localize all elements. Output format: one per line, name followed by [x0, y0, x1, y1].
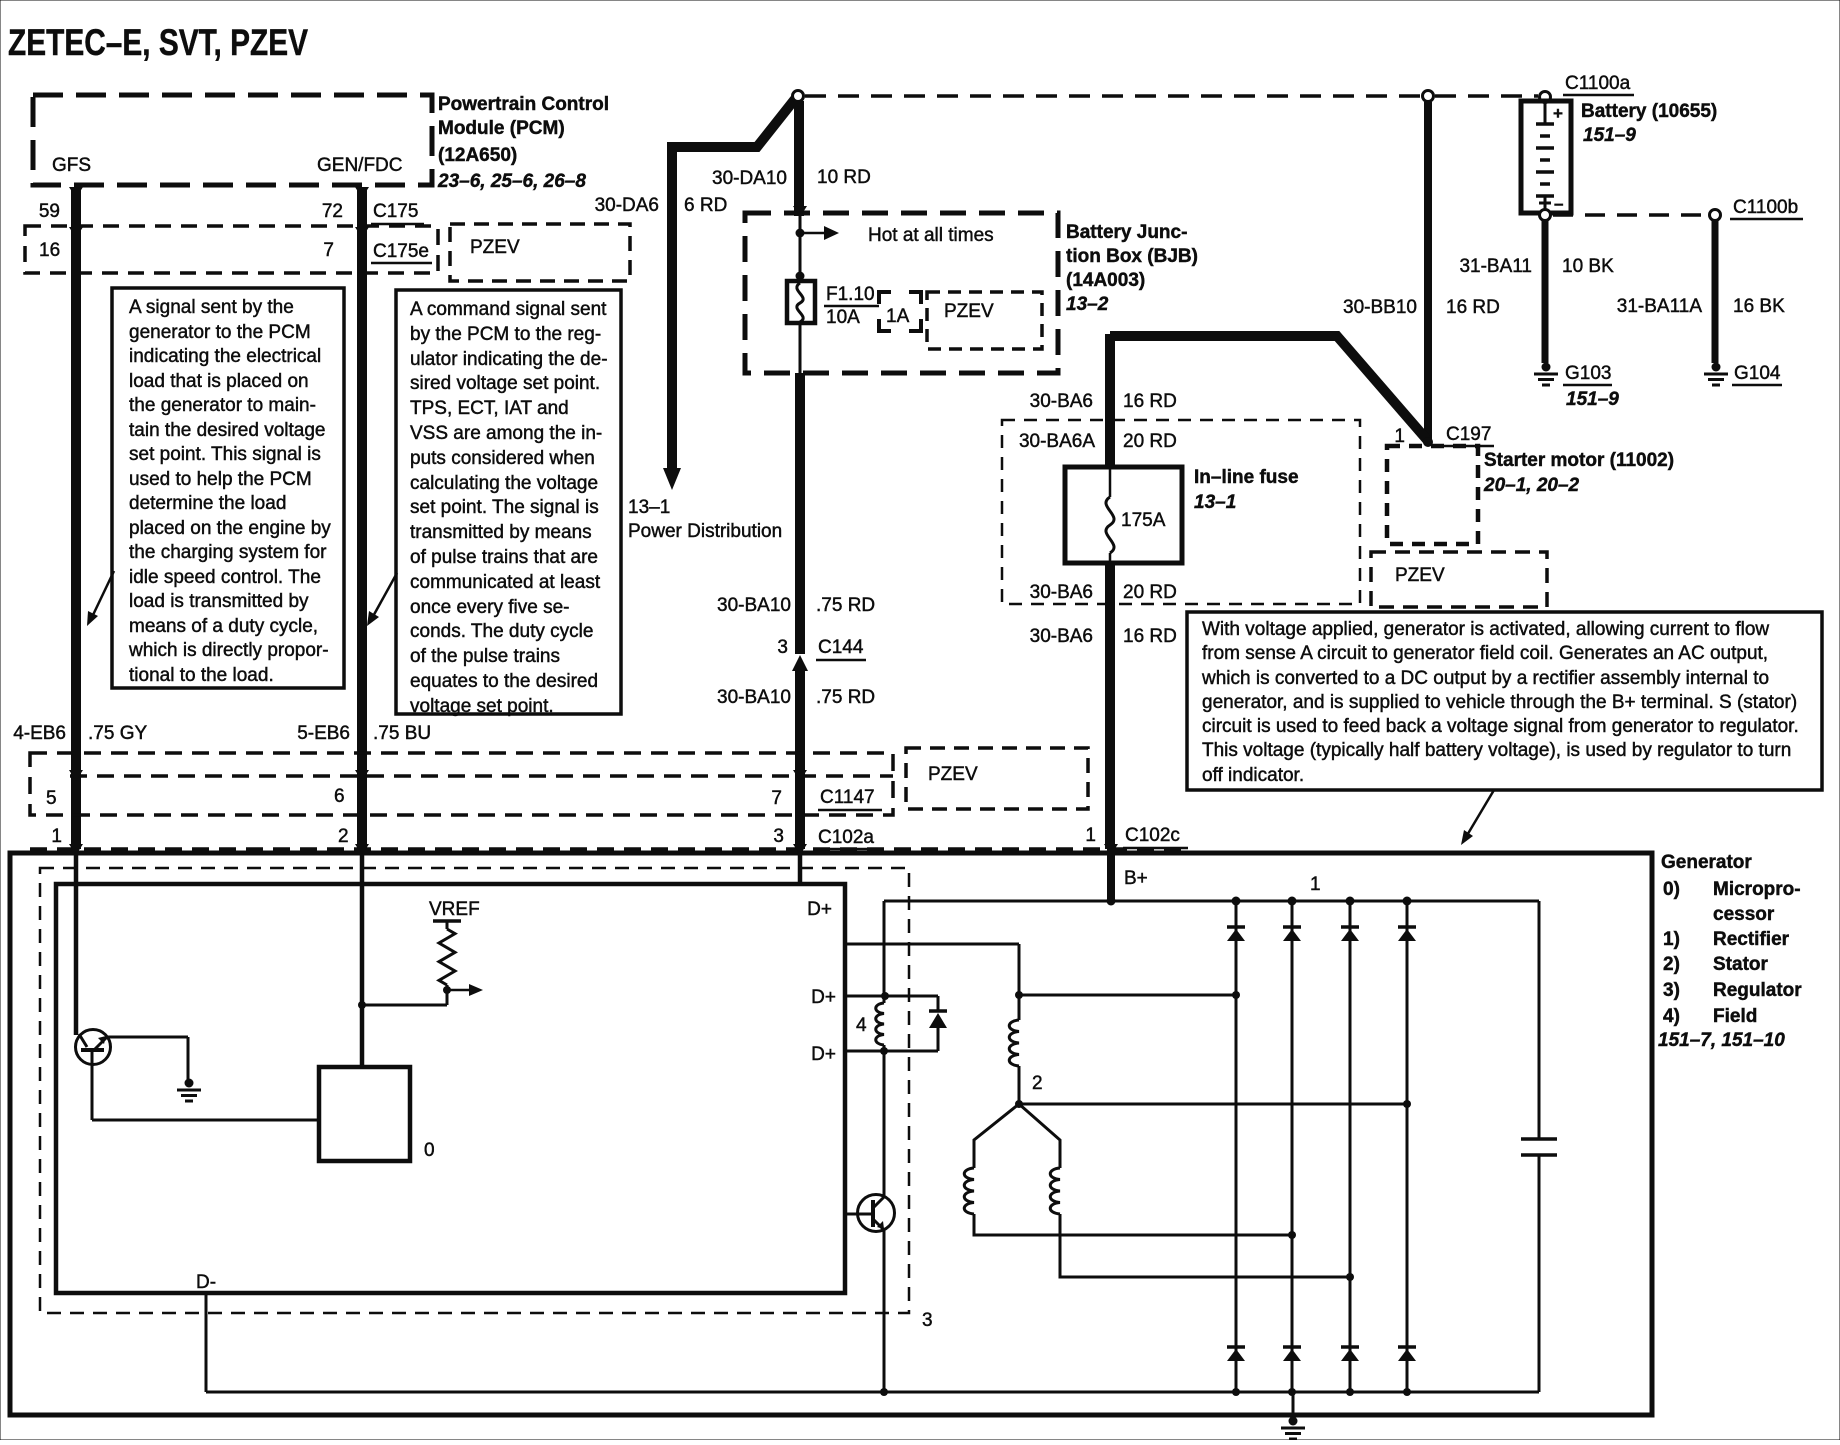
svg-text:–: – — [1554, 194, 1563, 213]
wire label 30-BA10 .75 RD (upper) — [717, 595, 875, 616]
svg-text:TPS, ECT, IAT and: TPS, ECT, IAT and — [410, 398, 569, 419]
wire 30-BB10 16 RD (bus to starter) — [1423, 91, 1434, 441]
svg-text:13–1: 13–1 — [1194, 492, 1236, 513]
wire Q1 emitter to ground — [107, 1037, 188, 1080]
PCM module box (12A650) — [33, 95, 432, 185]
svg-text:tion Box (BJB): tion Box (BJB) — [1066, 246, 1198, 267]
connector C1100a — [1563, 73, 1634, 95]
svg-text:cessor: cessor — [1713, 904, 1775, 925]
svg-text:16 RD: 16 RD — [1446, 297, 1500, 318]
svg-text:(12A650): (12A650) — [438, 145, 517, 166]
in-line fuse label — [1194, 467, 1299, 513]
dashed link battery negative to C1100b — [1553, 210, 1721, 221]
svg-text:equates to the desired: equates to the desired — [410, 671, 598, 692]
svg-text:13–2: 13–2 — [1066, 294, 1109, 315]
svg-text:C144: C144 — [818, 637, 864, 658]
wire 30-BA10 .75 RD (BJB to C144) — [795, 373, 805, 654]
pin label D+ (field lo) — [811, 1044, 836, 1065]
wire label 30-BA6 16 RD (lower) — [1030, 626, 1177, 647]
in-line fuse dashed box — [1002, 420, 1360, 604]
pin label B+ — [1124, 868, 1148, 889]
svg-text:generator to the PCM: generator to the PCM — [129, 322, 311, 343]
svg-text:30-DA6: 30-DA6 — [595, 195, 659, 216]
svg-text:+: + — [1553, 104, 1563, 123]
svg-text:set point. The signal is: set point. The signal is — [410, 497, 599, 518]
svg-text:GFS: GFS — [52, 155, 91, 176]
starter motor label — [1483, 450, 1674, 496]
svg-text:.75 GY: .75 GY — [88, 723, 147, 744]
svg-text:Battery (10655): Battery (10655) — [1581, 101, 1717, 122]
node C197 junction — [1423, 437, 1433, 447]
ground (regulator internal) — [177, 1079, 201, 1102]
svg-text:which is converted to a DC out: which is converted to a DC output by a r… — [1201, 668, 1769, 689]
svg-text:59: 59 — [39, 201, 60, 222]
stator wye center node — [1015, 1100, 1023, 1108]
svg-text:0): 0) — [1663, 879, 1680, 900]
svg-text:A command signal sent: A command signal sent — [410, 299, 607, 320]
svg-text:C175: C175 — [373, 201, 418, 222]
svg-text:30-BA6: 30-BA6 — [1030, 626, 1093, 647]
capacitor (noise suppression) — [1521, 901, 1557, 1392]
svg-text:Starter motor (11002): Starter motor (11002) — [1484, 450, 1674, 471]
wire 30-DA6 6 RD to power distribution — [663, 99, 795, 490]
svg-text:PZEV: PZEV — [928, 764, 978, 785]
wire stator sense S — [846, 944, 1019, 995]
svg-text:(14A003): (14A003) — [1066, 270, 1145, 291]
svg-text:4-EB6: 4-EB6 — [13, 723, 66, 744]
BJB label text — [1066, 222, 1198, 315]
ground bus (generator bottom) — [206, 1391, 1539, 1394]
svg-text:20 RD: 20 RD — [1123, 582, 1177, 603]
pin label D+ (top) — [807, 899, 832, 920]
wire battery feed to starter/generator (thick) — [1110, 336, 1428, 441]
svg-text:means of a duty cycle,: means of a duty cycle, — [129, 616, 318, 637]
ground G103 — [1534, 363, 1619, 411]
svg-text:load that is placed on: load that is placed on — [129, 371, 309, 392]
battery junction box (BJB) dashed outline — [745, 213, 1058, 373]
PCM label text — [437, 94, 609, 192]
svg-text:PZEV: PZEV — [470, 237, 520, 258]
svg-text:calculating the voltage: calculating the voltage — [410, 473, 598, 494]
fuse 175A — [1065, 467, 1182, 563]
starter motor (11002) box — [1387, 446, 1478, 544]
svg-text:from sense A circuit to genera: from sense A circuit to generator field … — [1202, 643, 1768, 664]
wire label 30-BB10 16 RD — [1343, 297, 1500, 318]
svg-text:30-BA10: 30-BA10 — [717, 687, 791, 708]
hot at all times feed arrow — [796, 226, 840, 240]
svg-text:With voltage applied, generato: With voltage applied, generator is activ… — [1202, 619, 1769, 640]
svg-text:generator, and is supplied to: generator, and is supplied to vehicle th… — [1202, 692, 1797, 713]
svg-text:ulator indicating the de-: ulator indicating the de- — [410, 349, 608, 370]
transistor Q1 (regulator input) — [76, 1030, 111, 1065]
svg-text:the generator to main-: the generator to main- — [129, 395, 316, 416]
ground G104 — [1704, 363, 1782, 386]
svg-text:VSS are among the in-: VSS are among the in- — [410, 423, 602, 444]
stator phase A — [1009, 991, 1023, 1104]
fuse position bracket 1A — [879, 292, 921, 331]
svg-text:tain the desired voltage: tain the desired voltage — [129, 420, 325, 441]
svg-text:10A: 10A — [826, 307, 860, 328]
rectifier leg 4 diode pair — [1398, 897, 1416, 1397]
connector C1147 box pins 5 / 6 / 7 — [30, 753, 893, 815]
flyback diode (field) — [929, 996, 947, 1051]
rectifier leg 2 diode pair — [1283, 897, 1301, 1397]
svg-text:Regulator: Regulator — [1713, 980, 1802, 1001]
svg-text:7: 7 — [771, 788, 782, 809]
PZEV option box (starter) — [1371, 552, 1547, 607]
svg-text:10 BK: 10 BK — [1562, 256, 1614, 277]
svg-text:placed on the engine by: placed on the engine by — [129, 518, 331, 539]
svg-text:4): 4) — [1663, 1006, 1680, 1027]
svg-text:Rectifier: Rectifier — [1713, 929, 1790, 950]
regulator dashed box (3) — [40, 868, 933, 1331]
wire label 30-DA6 6 RD — [595, 195, 728, 216]
svg-text:circuit is used to feed back a: circuit is used to feed back a voltage s… — [1202, 716, 1799, 737]
PZEV option box (top) — [450, 224, 630, 281]
wire B+ (C102c into generator) — [1107, 849, 1115, 899]
connector C197 — [1394, 424, 1494, 447]
label hot at all times — [868, 225, 994, 246]
wire 30-DA10 10 RD (node to BJB) — [794, 101, 804, 216]
svg-text:C1100a: C1100a — [1565, 73, 1631, 94]
svg-text:5-EB6: 5-EB6 — [297, 723, 350, 744]
wire Q2 emitter to ground bus — [880, 1230, 888, 1396]
svg-text:6: 6 — [334, 786, 345, 807]
svg-text:30-BA6A: 30-BA6A — [1019, 431, 1095, 452]
wire label 4-EB6 .75 GY — [13, 723, 147, 744]
wire label 31-BA11 10 BK — [1459, 256, 1614, 277]
svg-text:31-BA11A: 31-BA11A — [1617, 296, 1703, 317]
svg-text:Generator: Generator — [1661, 852, 1752, 873]
wire label 30-BA6A 20 RD — [1019, 431, 1177, 452]
svg-text:VREF: VREF — [429, 899, 480, 920]
wire GFS circuit 4-EB6 .75 GY (PCM to generator pin 1) — [71, 188, 81, 1035]
svg-text:7: 7 — [323, 240, 334, 261]
svg-text:D+: D+ — [811, 1044, 836, 1065]
wire 31-BA11 10 BK (battery negative to G103) — [1540, 210, 1551, 364]
svg-text:4: 4 — [856, 1015, 867, 1036]
svg-text:puts considered when: puts considered when — [410, 448, 595, 469]
PZEV option box (at C1147) — [906, 748, 1088, 809]
connector C175 wire arrowheads — [69, 187, 369, 198]
svg-text:20–1, 20–2: 20–1, 20–2 — [1483, 475, 1580, 496]
note box 2 pointer arrow to GEN/FDC wire — [367, 573, 397, 626]
svg-text:0: 0 — [424, 1140, 435, 1161]
svg-text:PZEV: PZEV — [944, 301, 994, 322]
svg-text:2): 2) — [1663, 954, 1680, 975]
svg-text:3: 3 — [773, 826, 784, 847]
svg-text:tional to the load.: tional to the load. — [129, 665, 274, 686]
svg-text:by the PCM to the reg-: by the PCM to the reg- — [410, 324, 601, 345]
generator outer box — [10, 853, 1652, 1415]
ground (generator case) — [1281, 1392, 1305, 1439]
wire 30-BA6 20 RD (below fuse) — [1105, 563, 1115, 604]
svg-text:3: 3 — [777, 637, 788, 658]
pin label D- — [196, 1272, 216, 1293]
svg-text:voltage set point.: voltage set point. — [410, 696, 554, 717]
svg-text:30-BB10: 30-BB10 — [1343, 297, 1417, 318]
svg-text:G103: G103 — [1565, 363, 1611, 384]
svg-text:C102c: C102c — [1125, 825, 1180, 846]
connector arrow into BJB — [793, 206, 807, 217]
wire field D+ lower — [846, 1047, 938, 1055]
svg-text:C1100b: C1100b — [1733, 197, 1798, 218]
B+ bus — [884, 897, 1539, 906]
svg-text:175A: 175A — [1121, 510, 1166, 531]
svg-text:B+: B+ — [1124, 868, 1148, 889]
svg-text:C175e: C175e — [373, 241, 429, 262]
wire D- to case ground bus — [205, 1293, 208, 1392]
svg-text:Battery Junc-: Battery Junc- — [1066, 222, 1187, 243]
svg-text:ZETEC–E, SVT, PZEV: ZETEC–E, SVT, PZEV — [8, 22, 308, 63]
svg-text:C102a: C102a — [818, 827, 874, 848]
svg-text:C1147: C1147 — [820, 787, 875, 808]
svg-text:sired voltage set point.: sired voltage set point. — [410, 373, 600, 394]
connector C1147 wire arrowheads — [69, 770, 807, 781]
connector C1100b — [1730, 197, 1803, 219]
svg-text:A signal sent by the: A signal sent by the — [129, 297, 294, 318]
resistor VREF divider — [439, 929, 455, 985]
field winding (4) — [876, 996, 884, 1051]
rectifier leg 1 diode pair — [1227, 897, 1245, 1397]
rectifier label 1 — [1310, 874, 1321, 895]
wire GEN/FDC circuit 5-EB6 .75 BU (PCM to generator pin 2) — [357, 188, 367, 1067]
svg-text:151–9: 151–9 — [1566, 389, 1619, 410]
svg-text:Micropro-: Micropro- — [1713, 879, 1801, 900]
wire label 31-BA11A 16 BK — [1617, 296, 1785, 317]
svg-text:23–6, 25–6, 26–8: 23–6, 25–6, 26–8 — [437, 171, 586, 192]
svg-text:Powertrain Control: Powertrain Control — [438, 94, 609, 115]
svg-text:communicated at least: communicated at least — [410, 572, 601, 593]
wire field D+ upper — [846, 992, 938, 1000]
wire 30-BA10 .75 RD (C144 to C1147) — [795, 670, 805, 849]
svg-text:1: 1 — [1085, 825, 1096, 846]
svg-text:30-DA10: 30-DA10 — [712, 168, 787, 189]
wire 30-BA10 sense into module (pin 3) — [798, 849, 803, 884]
svg-text:13–1: 13–1 — [628, 497, 670, 518]
svg-text:D+: D+ — [807, 899, 832, 920]
wire label 30-DA10 10 RD — [712, 167, 871, 189]
svg-text:151–7, 151–10: 151–7, 151–10 — [1658, 1030, 1785, 1051]
note box: GFS signal description — [112, 288, 344, 688]
wire wye center to rectifier leg 4 — [1019, 1100, 1411, 1108]
svg-text:1): 1) — [1663, 929, 1680, 950]
connector C175e wire arrowheads — [69, 227, 369, 238]
svg-text:16 RD: 16 RD — [1123, 391, 1177, 412]
regulator module box — [56, 884, 845, 1293]
note box: generator operation description — [1187, 612, 1822, 790]
connector C102a wire arrowheads — [69, 844, 807, 855]
node resistor tap — [443, 985, 451, 1005]
svg-text:Stator: Stator — [1713, 954, 1769, 975]
wire Q2 base — [845, 1213, 872, 1216]
wire 30-BA6 16 RD (to C102c) — [1105, 604, 1115, 849]
dashed bus wire to battery and starter — [805, 94, 1538, 98]
VREF label — [429, 899, 480, 920]
svg-text:F1.10: F1.10 — [826, 284, 875, 305]
svg-text:set point. This signal is: set point. This signal is — [129, 444, 321, 465]
svg-text:72: 72 — [322, 201, 343, 222]
svg-text:determine the load: determine the load — [129, 493, 286, 514]
svg-text:load is transmitted by: load is transmitted by — [129, 591, 309, 612]
wire Q1 to microprocessor — [92, 1052, 319, 1120]
fuse F1.10 10A — [787, 281, 815, 323]
svg-text:6 RD: 6 RD — [684, 195, 727, 216]
svg-text:used to help the PCM: used to help the PCM — [129, 469, 312, 490]
svg-text:once every five se-: once every five se- — [410, 597, 569, 618]
VREF terminal — [433, 921, 461, 929]
svg-text:which is directly propor-: which is directly propor- — [128, 640, 329, 661]
svg-text:5: 5 — [46, 788, 57, 809]
rectifier leg 3 diode pair — [1341, 897, 1359, 1397]
svg-text:PZEV: PZEV — [1395, 565, 1445, 586]
wire label 30-BA6 16 RD (upper) — [1030, 391, 1177, 412]
test point arrow — [447, 984, 483, 996]
svg-text:1A: 1A — [886, 306, 910, 327]
wire label 30-BA6 20 RD — [1030, 582, 1177, 603]
svg-text:16 RD: 16 RD — [1123, 626, 1177, 647]
svg-text:16: 16 — [39, 240, 60, 261]
microprocessor box (0) — [319, 1067, 435, 1161]
svg-text:30-BA10: 30-BA10 — [717, 595, 791, 616]
wire B+ drop to field — [883, 901, 886, 996]
note box 3 pointer arrow to generator — [1461, 790, 1494, 845]
pin label D+ (field hi) — [811, 987, 836, 1008]
svg-text:idle speed control. The: idle speed control. The — [129, 567, 321, 588]
connector C102c pin 1 — [1085, 825, 1188, 855]
svg-text:2: 2 — [338, 826, 349, 847]
connector C102a line pins 1 / 2 / 3 — [30, 826, 1184, 849]
svg-text:Module (PCM): Module (PCM) — [438, 118, 565, 139]
wire phase A to rectifier leg 1 — [1019, 991, 1240, 999]
wire tap to GEN/FDC input — [358, 1001, 447, 1009]
svg-text:off indicator.: off indicator. — [1202, 765, 1304, 786]
svg-text:This voltage (typically half b: This voltage (typically half battery vol… — [1202, 740, 1791, 761]
svg-text:31-BA11: 31-BA11 — [1459, 256, 1532, 277]
svg-text:C197: C197 — [1446, 424, 1491, 445]
wire label 5-EB6 .75 BU — [297, 723, 431, 744]
svg-text:Hot at all times: Hot at all times — [868, 225, 994, 246]
note box 1 pointer arrow to GFS wire — [87, 571, 114, 626]
node battery feed (top splice) — [793, 91, 804, 102]
wire inside BJB below fuse — [799, 323, 802, 375]
connector C144 — [777, 637, 866, 671]
svg-text:151–9: 151–9 — [1583, 125, 1636, 146]
svg-text:In–line fuse: In–line fuse — [1194, 467, 1299, 488]
svg-text:30-BA6: 30-BA6 — [1030, 391, 1093, 412]
svg-text:3: 3 — [922, 1310, 933, 1331]
wire label 30-BA10 .75 RD (lower) — [717, 687, 875, 708]
battery (10655) — [1521, 92, 1571, 214]
wire 30-BA6 16 RD (upper) — [1105, 334, 1115, 467]
svg-text:10 RD: 10 RD — [817, 167, 871, 188]
svg-text:.75 RD: .75 RD — [816, 595, 875, 616]
stator phase B — [964, 1104, 1296, 1239]
connector C175e box pins 16 / 7 — [25, 226, 438, 273]
svg-text:D+: D+ — [811, 987, 836, 1008]
field label 4 — [856, 1015, 867, 1036]
wire inside BJB above fuse — [796, 216, 805, 281]
svg-text:3): 3) — [1663, 980, 1680, 1001]
svg-text:30-BA6: 30-BA6 — [1030, 582, 1093, 603]
svg-text:.75 BU: .75 BU — [373, 723, 431, 744]
stator label 2 — [1032, 1073, 1043, 1094]
svg-text:2: 2 — [1032, 1073, 1043, 1094]
svg-text:D-: D- — [196, 1272, 216, 1293]
svg-text:Field: Field — [1713, 1006, 1757, 1027]
svg-text:Power Distribution: Power Distribution — [628, 521, 782, 542]
PZEV option box (inside BJB) — [927, 292, 1042, 349]
title ZETEC-E, SVT, PZEV — [8, 22, 308, 63]
svg-text:1: 1 — [1310, 874, 1321, 895]
svg-text:conds. The duty cycle: conds. The duty cycle — [410, 621, 593, 642]
fuse label F1.10 / 10A — [824, 284, 879, 328]
transistor Q2 (field driver) — [858, 1051, 895, 1232]
svg-text:the charging system for: the charging system for — [129, 542, 327, 563]
svg-text:16 BK: 16 BK — [1733, 296, 1785, 317]
connector C175 pins 59 / 72 — [39, 201, 424, 224]
svg-text:GEN/FDC: GEN/FDC — [317, 155, 403, 176]
svg-text:transmitted by means: transmitted by means — [410, 522, 592, 543]
svg-text:of pulse trains that are: of pulse trains that are — [410, 547, 598, 568]
svg-text:indicating the electrical: indicating the electrical — [129, 346, 321, 367]
note box: GEN/FDC command signal description — [396, 290, 621, 717]
svg-text:G104: G104 — [1734, 363, 1781, 384]
generator legend — [1658, 852, 1802, 1051]
svg-text:20 RD: 20 RD — [1123, 431, 1177, 452]
stator phase C — [1019, 1104, 1354, 1281]
svg-text:.75 RD: .75 RD — [816, 687, 875, 708]
svg-text:of the pulse trains: of the pulse trains — [410, 646, 560, 667]
power distribution reference 13-1 — [628, 497, 782, 542]
wire 31-BA11A 16 BK (C1100b to G104) — [1712, 221, 1719, 363]
svg-text:1: 1 — [51, 826, 62, 847]
battery label — [1581, 101, 1717, 146]
